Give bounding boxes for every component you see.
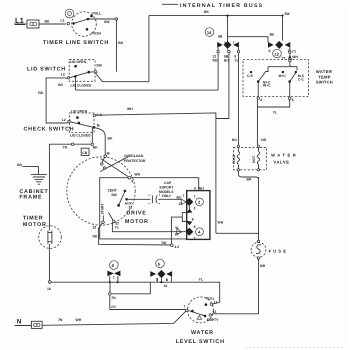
svg-text:21: 21 <box>129 206 133 210</box>
node 32 timer terminal <box>171 244 174 247</box>
lid switch <box>27 60 103 88</box>
connector group 14 triangles <box>217 41 239 50</box>
connector pin diamond lower <box>185 228 193 236</box>
wire lid switch L2 to check switch <box>46 78 68 123</box>
connector 4 circled <box>196 228 204 236</box>
svg-text:12: 12 <box>213 310 217 314</box>
svg-text:MOTOR: MOTOR <box>23 222 47 228</box>
noise filter FL1 <box>27 20 39 28</box>
fuse <box>251 240 288 268</box>
wire motor 32 RD to timer 32 <box>99 223 172 245</box>
svg-text:LID OPEN: LID OPEN <box>71 109 88 113</box>
svg-text:START: START <box>101 203 105 215</box>
svg-text:BK: BK <box>118 41 123 45</box>
svg-text:M+C: M+C <box>279 74 287 78</box>
node M motor terminal <box>104 155 107 158</box>
svg-text:VALVE: VALVE <box>273 159 289 164</box>
wire internal timer buss <box>149 15 283 17</box>
wire WH check switch to fuse line <box>96 113 216 233</box>
wire BK to timer line switch <box>39 23 66 25</box>
wire fuse down and left to water level switch <box>212 259 259 314</box>
svg-text:YL: YL <box>273 111 277 115</box>
svg-text:WH: WH <box>76 318 82 322</box>
svg-text:BK: BK <box>108 137 113 141</box>
svg-text:LID CLOSED: LID CLOSED <box>70 133 91 137</box>
node 32 RD motor terminal <box>102 216 104 222</box>
wire valve bottoms join <box>238 171 258 179</box>
svg-text:PULL: PULL <box>93 12 102 16</box>
nodes TT WH into water temp switch <box>289 48 291 67</box>
svg-text:YL: YL <box>234 59 238 63</box>
svg-text:6: 6 <box>269 49 271 53</box>
wire 12 RD leg <box>217 53 219 90</box>
svg-text:YL: YL <box>115 225 119 229</box>
connector 14 circled <box>205 28 214 37</box>
svg-text:WH: WH <box>127 107 133 111</box>
svg-text:12: 12 <box>274 51 279 56</box>
wire jumper to timer 32 <box>171 217 182 244</box>
connector group 12 triangles <box>268 41 290 53</box>
svg-text:GN: GN <box>17 163 23 167</box>
svg-text:BR: BR <box>247 178 252 182</box>
svg-text:BK: BK <box>204 10 209 14</box>
svg-text:BR: BR <box>260 264 265 268</box>
svg-text:M: M <box>97 124 100 128</box>
svg-text:7: 7 <box>184 305 186 309</box>
svg-text:BK: BK <box>93 145 98 149</box>
svg-text:RD: RD <box>38 91 43 95</box>
svg-text:SW: SW <box>96 63 102 67</box>
wire WH to water level switch <box>42 311 186 325</box>
svg-text:COLD: COLD <box>232 154 236 164</box>
svg-text:RD: RD <box>58 83 63 87</box>
svg-text:LID OPEN: LID OPEN <box>70 60 87 64</box>
wire 9 WH to connector block top <box>187 190 199 192</box>
svg-text:14: 14 <box>207 30 212 35</box>
wire timer terminal 7N loop <box>110 282 150 294</box>
connector pin diamond upper <box>185 198 193 206</box>
svg-text:YL: YL <box>175 226 179 230</box>
svg-text:C-E: C-E <box>247 74 254 78</box>
svg-text:32: 32 <box>93 226 97 230</box>
svg-text:SW: SW <box>111 193 117 197</box>
svg-text:9: 9 <box>131 179 133 183</box>
svg-text:N: N <box>17 319 22 326</box>
svg-text:DRIVE: DRIVE <box>126 210 146 216</box>
svg-text:W+C: W+C <box>263 84 271 88</box>
connector pin open triangle upper <box>181 199 186 205</box>
svg-text:OR: OR <box>261 138 267 142</box>
svg-text:5: 5 <box>292 98 294 102</box>
svg-text:CENT: CENT <box>108 188 118 192</box>
drive motor box <box>100 178 199 239</box>
svg-text:GY: GY <box>111 305 117 309</box>
svg-text:9: 9 <box>194 186 196 190</box>
svg-text:EMPTY: EMPTY <box>207 318 219 322</box>
centrifugal switch <box>108 188 133 209</box>
svg-text:7: 7 <box>233 41 235 45</box>
wire L1 lead <box>14 23 27 25</box>
svg-text:WH: WH <box>292 55 298 59</box>
svg-text:16: 16 <box>164 284 168 288</box>
svg-text:WATER: WATER <box>191 330 214 336</box>
wire N lead <box>15 325 32 327</box>
svg-text:EXPORT: EXPORT <box>160 185 175 189</box>
wire 5 YL leg to water valve <box>238 53 240 145</box>
svg-text:TIMER LINE SWITCH: TIMER LINE SWITCH <box>43 40 109 46</box>
wire bottom bus to water level switch <box>51 282 220 304</box>
svg-text:7N: 7N <box>111 296 116 300</box>
wire TN line <box>49 128 94 145</box>
svg-text:1: 1 <box>194 236 196 240</box>
svg-text:LEVEL SWTICH: LEVEL SWTICH <box>176 339 225 345</box>
svg-text:CAP: CAP <box>164 181 172 185</box>
svg-text:RD: RD <box>162 241 167 245</box>
timer motor <box>39 226 62 249</box>
svg-text:WATER: WATER <box>271 153 298 158</box>
bottom bus connector group 8 <box>107 261 120 284</box>
connector pin open triangle lower <box>177 229 182 235</box>
svg-text:TN: TN <box>63 146 68 150</box>
water temp switch entry triangle <box>288 56 291 59</box>
svg-text:27: 27 <box>175 233 179 237</box>
connector 12 circled <box>273 49 282 58</box>
svg-text:LID CLOSED: LID CLOSED <box>71 83 92 87</box>
svg-text:RD: RD <box>93 235 98 239</box>
svg-text:4: 4 <box>260 98 262 102</box>
svg-text:8: 8 <box>192 217 194 221</box>
svg-text:YL: YL <box>199 277 203 281</box>
svg-text:7: 7 <box>194 195 196 199</box>
svg-text:RD: RD <box>213 59 218 63</box>
timer line switch <box>61 9 118 36</box>
svg-text:WH: WH <box>134 173 140 177</box>
connector block <box>187 191 210 240</box>
wire temp switch 5 jog to 4 line <box>257 99 289 145</box>
svg-text:7: 7 <box>182 194 184 198</box>
svg-text:HOT: HOT <box>252 155 256 163</box>
svg-text:L2: L2 <box>62 118 66 122</box>
svg-text:TIMER: TIMER <box>23 215 44 221</box>
svg-text:SW: SW <box>104 20 110 24</box>
check switch <box>24 109 103 137</box>
wire RD from timer 12 <box>76 89 219 91</box>
svg-text:7N: 7N <box>58 318 63 322</box>
svg-text:MODELS: MODELS <box>159 190 174 194</box>
wire WH line into fuse <box>216 233 259 235</box>
wire 5B BU leg to fuse line <box>216 53 229 119</box>
wire valve to fuse <box>258 177 260 240</box>
wire motor 22 YL to connector 4 <box>112 223 185 232</box>
svg-text:L1: L1 <box>61 19 65 23</box>
drive motor dashed circle <box>67 157 135 225</box>
bottom bus connector group 6 <box>150 259 172 288</box>
wire RD stub to lid closed contact <box>75 78 77 90</box>
svg-text:WATER: WATER <box>316 69 332 74</box>
node 16 bus left end <box>48 281 51 284</box>
wire buss drop 5W to connector 12 <box>282 17 284 41</box>
water temp switch internals <box>247 67 305 102</box>
svg-text:5B: 5B <box>270 33 275 37</box>
noise filter FL2 <box>31 321 42 328</box>
nodes under 14 <box>217 50 219 52</box>
overload protector <box>100 157 128 177</box>
svg-text:C-C: C-C <box>298 78 305 82</box>
svg-text:PUSH: PUSH <box>92 31 102 35</box>
svg-text:INTERNAL TIMER BUSS: INTERNAL TIMER BUSS <box>180 3 263 9</box>
svg-text:WH: WH <box>198 186 204 190</box>
svg-text:6: 6 <box>224 41 226 45</box>
svg-text:13: 13 <box>214 301 218 305</box>
node 22 YL motor terminal <box>109 213 113 220</box>
connector 2 circled <box>196 198 204 206</box>
water valve box <box>233 147 266 169</box>
svg-text:CB: CB <box>82 151 87 155</box>
scan artifact dotted lines <box>245 347 345 349</box>
wire timer motor vertical <box>48 144 50 281</box>
svg-text:WH: WH <box>218 221 224 225</box>
svg-text:BU: BU <box>232 138 237 142</box>
svg-text:16: 16 <box>47 287 51 291</box>
wire GY to water level switch <box>110 295 187 310</box>
svg-text:8: 8 <box>194 225 196 229</box>
svg-text:OVERLOAD: OVERLOAD <box>124 154 144 158</box>
svg-text:FRAME: FRAME <box>19 195 42 201</box>
svg-text:BK: BK <box>45 20 50 24</box>
capacitor cap export models only <box>128 181 181 204</box>
svg-text:MOTOR: MOTOR <box>125 219 149 225</box>
wire BK down from timer line switch <box>116 20 118 71</box>
jumper connector 2 to 4 with pins 8 <box>188 206 190 209</box>
water temp switch box <box>243 60 309 97</box>
svg-text:2: 2 <box>194 207 196 211</box>
svg-text:ONLY: ONLY <box>162 194 172 198</box>
wire 5B jumper from buss <box>228 16 269 42</box>
svg-text:3-2: 3-2 <box>174 245 179 249</box>
svg-text:L2: L2 <box>61 73 65 77</box>
ground cabinet frame <box>31 175 47 185</box>
circuit breaker CB box <box>81 145 98 155</box>
internal timer buss label <box>162 3 178 5</box>
svg-text:5W: 5W <box>285 12 291 16</box>
svg-text:M: M <box>107 152 110 156</box>
svg-text:CHECK SWITCH: CHECK SWITCH <box>24 127 75 133</box>
svg-text:SWITCH: SWITCH <box>316 80 333 85</box>
svg-text:PROTECTOR: PROTECTOR <box>124 159 146 163</box>
wire buss left leg down to lid switch <box>95 16 149 82</box>
wire GN ground stub <box>22 167 38 175</box>
svg-text:FUSE: FUSE <box>269 248 288 253</box>
node 9 motor terminal <box>128 176 131 179</box>
svg-text:LID SWITCH: LID SWITCH <box>27 67 66 73</box>
water valve solenoids <box>232 145 260 171</box>
water level switch <box>184 297 220 323</box>
wire check switch M to motor M terminal <box>95 128 105 155</box>
svg-text:5B: 5B <box>218 34 223 38</box>
